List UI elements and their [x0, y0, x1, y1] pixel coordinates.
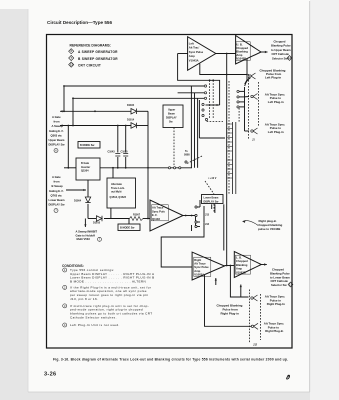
svg-text:REFERENCE DIAGRAMS:: REFERENCE DIAGRAMS:	[70, 44, 111, 48]
svg-text:Right Plug-In: Right Plug-In	[265, 329, 283, 333]
svg-text:Left: Left	[189, 42, 194, 46]
svg-text:Left Plug-in: Left Plug-in	[265, 76, 281, 80]
svg-text:Amp: Amp	[189, 54, 195, 58]
svg-text:Alt Trace: Alt Trace	[152, 206, 164, 210]
svg-text:Gate to Holdoff: Gate to Holdoff	[76, 233, 96, 237]
svg-text:to Lower Beam: to Lower Beam	[270, 275, 290, 279]
svg-text:A Sweep INHIBIT: A Sweep INHIBIT	[76, 230, 98, 234]
svg-text:D1014: D1014	[127, 119, 135, 122]
svg-text:CRT Cathode: CRT Cathode	[272, 52, 290, 56]
svg-text:Gating E. F.: Gating E. F.	[49, 129, 64, 133]
svg-text:Right: Right	[194, 258, 201, 262]
svg-text:V1043B: V1043B	[236, 57, 246, 61]
svg-text:Gating E. F.: Gating E. F.	[49, 189, 64, 193]
svg-text:Chopped: Chopped	[236, 259, 248, 263]
svg-text:E. F.: E. F.	[152, 213, 158, 217]
svg-text:DISPLAY: DISPLAY	[166, 117, 177, 120]
svg-text:Chopped: Chopped	[274, 40, 286, 44]
svg-text:Right Plug-in: Right Plug-in	[221, 311, 239, 315]
svg-text:Blanking Pulse: Blanking Pulse	[271, 44, 291, 48]
svg-text:CRT CIRCUIT: CRT CIRCUIT	[78, 63, 101, 67]
svg-text:Blanking: Blanking	[236, 263, 248, 267]
svg-text:3-26: 3-26	[44, 372, 56, 378]
svg-text:B Gate: B Gate	[81, 162, 90, 165]
svg-text:Circuit Description—Type 556: Circuit Description—Type 556	[47, 20, 112, 25]
svg-text:R1007: R1007	[133, 213, 141, 216]
svg-text:A Gate: A Gate	[52, 175, 61, 179]
svg-text:J13: J13	[205, 213, 210, 216]
svg-text:Upper: Upper	[168, 109, 175, 112]
svg-text:pulse to V1043B: pulse to V1043B	[258, 227, 280, 231]
svg-text:Alt Trace: Alt Trace	[194, 262, 206, 266]
svg-text:V1063A: V1063A	[194, 273, 204, 277]
svg-text:Multi V533: Multi V533	[77, 237, 91, 241]
svg-text:from: from	[54, 120, 61, 124]
svg-text:Q1504: Q1504	[81, 170, 89, 173]
svg-text:Sw: Sw	[169, 121, 173, 124]
svg-text:Q763 via: Q763 via	[51, 193, 63, 197]
svg-text:Lower Beam: Lower Beam	[204, 197, 220, 200]
svg-text:Blanking: Blanking	[236, 50, 248, 54]
svg-text:J13, pin 8 or 16.: J13, pin 8 or 16.	[70, 297, 98, 301]
svg-text:B SWEEP GENERATOR: B SWEEP GENERATOR	[78, 57, 118, 61]
svg-text:Blanking Pulse: Blanking Pulse	[270, 271, 290, 275]
svg-text:C1035: C1035	[121, 150, 129, 153]
svg-text:B MODE Sw: B MODE Sw	[80, 144, 94, 147]
svg-text:Q363 via: Q363 via	[51, 133, 63, 137]
svg-text:C1043: C1043	[108, 150, 116, 153]
svg-text:D1004: D1004	[74, 200, 82, 203]
svg-text:B Sweep: B Sweep	[52, 184, 64, 188]
svg-text:V1043A: V1043A	[189, 58, 199, 62]
svg-text:V1063B: V1063B	[236, 270, 246, 274]
svg-text:Fig. 3-16. Block diagram of Al: Fig. 3-16. Block diagram of Alternate Tr…	[53, 358, 288, 362]
svg-text:CRT Cathode: CRT Cathode	[271, 279, 289, 283]
svg-text:L. B.: L. B.	[236, 256, 242, 260]
svg-text:S608: S608	[184, 154, 190, 157]
svg-text:Amp: Amp	[236, 53, 242, 57]
svg-text:Beam: Beam	[168, 113, 176, 116]
svg-text:B MODE Sw: B MODE Sw	[120, 226, 134, 229]
svg-text:A SWEEP GENERATOR: A SWEEP GENERATOR	[78, 50, 118, 54]
svg-text:Trace Lock-: Trace Lock-	[111, 187, 125, 190]
svg-text:Alt Trac’: Alt Trac’	[189, 46, 200, 50]
svg-text:Amp: Amp	[194, 269, 200, 273]
svg-text:DISPLAY Sw: DISPLAY Sw	[204, 200, 219, 203]
svg-text:Alternate: Alternate	[111, 183, 122, 186]
svg-text:Cathode Selector switches.: Cathode Selector switches.	[70, 315, 117, 319]
svg-text:Chopped: Chopped	[272, 268, 284, 272]
svg-text:Chopped: Chopped	[236, 46, 248, 50]
svg-text:A Sweep: A Sweep	[52, 124, 63, 128]
svg-text:Upper Beam: Upper Beam	[49, 138, 65, 142]
svg-text:out Multi: out Multi	[111, 191, 122, 194]
svg-text:Right Plug-In: Right Plug-In	[267, 302, 285, 306]
svg-text:Sync Puls: Sync Puls	[152, 209, 165, 213]
svg-text:DISPLAY Sw: DISPLAY Sw	[49, 203, 66, 207]
svg-text:DISPLAY Sw: DISPLAY Sw	[49, 143, 66, 147]
svg-text:B MODE . . . . . . . . . . .: B MODE . . . . . . . . . . . . . . . . .…	[70, 279, 146, 283]
svg-text:Q1103: Q1103	[152, 217, 160, 221]
svg-text:Inverter: Inverter	[81, 166, 90, 169]
svg-text:J12: J12	[253, 344, 258, 347]
svg-text:D1010: D1010	[93, 222, 101, 225]
svg-text:A Gate: A Gate	[52, 115, 61, 119]
svg-text:to Upper Beam: to Upper Beam	[271, 48, 291, 52]
svg-text:Amp: Amp	[236, 267, 242, 271]
svg-text:U. B.: U. B.	[236, 43, 242, 47]
svg-text:Q1513, Q1523: Q1513, Q1523	[110, 196, 127, 199]
svg-text:Selector Sw: Selector Sw	[271, 283, 287, 287]
svg-text:from: from	[54, 180, 61, 184]
svg-text:≈ +10 V: ≈ +10 V	[208, 177, 217, 180]
svg-text:Sync Pulse: Sync Pulse	[194, 265, 209, 269]
svg-text:Left Plug-in: Left Plug-in	[268, 130, 284, 134]
svg-text:J13: J13	[205, 223, 210, 226]
svg-text:Left Plug-In Unit is not used.: Left Plug-In Unit is not used.	[70, 323, 120, 327]
svg-text:Left Plug-in: Left Plug-in	[268, 100, 284, 104]
svg-text:D1034: D1034	[127, 104, 135, 107]
svg-text:Selector Sw: Selector Sw	[272, 56, 288, 60]
svg-text:Lower Beam: Lower Beam	[49, 198, 66, 202]
svg-text:Sync Pulse: Sync Pulse	[189, 50, 204, 54]
